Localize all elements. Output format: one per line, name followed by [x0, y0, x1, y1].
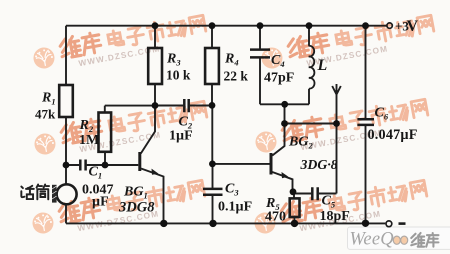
svg-text:3DG·8: 3DG·8 [300, 157, 338, 172]
svg-text:WeeQ: WeeQ [350, 230, 395, 250]
svg-text:BG1: BG1 [123, 185, 148, 201]
svg-text:470: 470 [265, 210, 286, 225]
svg-text:47pF: 47pF [264, 71, 294, 86]
svg-text:22 k: 22 k [224, 69, 249, 84]
svg-text:BG2: BG2 [288, 135, 313, 151]
svg-text:47k: 47k [35, 107, 56, 122]
svg-text:V: V [407, 18, 419, 35]
svg-text:R4: R4 [224, 52, 239, 68]
svg-text:1M: 1M [79, 133, 99, 148]
svg-text:R3: R3 [166, 52, 181, 68]
svg-text:10 k: 10 k [166, 68, 191, 83]
svg-text:1µF: 1µF [169, 129, 193, 144]
svg-text:C6: C6 [375, 106, 389, 122]
svg-text:0.047µF: 0.047µF [368, 127, 418, 143]
svg-text:3DG8: 3DG8 [118, 200, 155, 216]
svg-text:18pF: 18pF [320, 209, 350, 224]
svg-text:0.1µF: 0.1µF [218, 200, 252, 215]
svg-text:L: L [317, 57, 328, 74]
svg-text:C1: C1 [89, 165, 103, 181]
svg-text:C3: C3 [225, 182, 239, 198]
svg-text:µF: µF [92, 195, 109, 210]
svg-text:C4: C4 [271, 53, 285, 69]
svg-text:R1: R1 [41, 91, 56, 107]
